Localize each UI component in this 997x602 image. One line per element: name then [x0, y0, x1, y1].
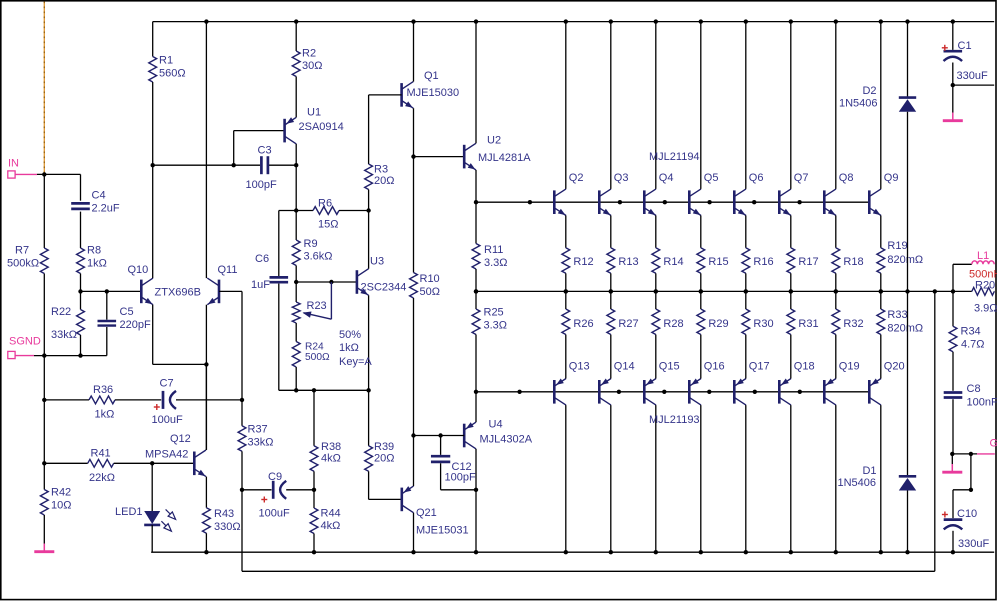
wire Q2 collector — [565, 22, 567, 189]
wire R41 row — [44, 462, 87, 464]
resistor R20 — [953, 288, 995, 296]
wire U2 emitter — [475, 170, 477, 202]
svg-text:Q18: Q18 — [794, 361, 815, 373]
svg-text:D1: D1 — [862, 465, 876, 477]
wire output mid rail — [476, 290, 953, 292]
transistor Q6 — [734, 189, 747, 218]
wire U1 collector down — [295, 165, 297, 240]
svg-text:D2: D2 — [862, 85, 876, 97]
svg-text:R25: R25 — [484, 307, 504, 319]
svg-text:20Ω: 20Ω — [374, 453, 394, 465]
node base row 1 junction 1 — [528, 200, 532, 204]
label MJL21193 — [649, 414, 700, 426]
node C1 bottom junction — [951, 83, 955, 87]
node R34 top — [933, 289, 937, 293]
svg-text:C1: C1 — [958, 40, 972, 52]
svg-text:MJL4281A: MJL4281A — [478, 152, 531, 164]
label Q3 — [614, 172, 629, 184]
svg-text:50%: 50% — [339, 329, 361, 341]
resistor R39 — [365, 390, 402, 499]
svg-text:3.3Ω: 3.3Ω — [484, 257, 508, 269]
svg-text:MJL4302A: MJL4302A — [480, 434, 533, 446]
label G — [990, 438, 997, 450]
node U1 collector row — [294, 163, 298, 167]
transistor Q16 — [689, 378, 701, 405]
label R2 — [302, 48, 322, 73]
wire Q19 emitter — [835, 335, 837, 379]
label R3 — [374, 164, 394, 188]
svg-text:330Ω: 330Ω — [214, 521, 241, 533]
wire Q11 collector — [205, 22, 207, 279]
transistor Q21 — [402, 486, 414, 513]
node Q11 collector rail — [204, 19, 208, 23]
svg-text:33kΩ: 33kΩ — [248, 437, 274, 449]
svg-text:R39: R39 — [374, 441, 394, 453]
wire G ground stub — [951, 454, 953, 464]
label R29 — [708, 318, 728, 330]
svg-text:Q7: Q7 — [794, 172, 809, 184]
svg-text:R10: R10 — [420, 273, 440, 285]
node R30 top — [744, 289, 748, 293]
svg-text:1kΩ: 1kΩ — [95, 409, 115, 421]
svg-text:R13: R13 — [618, 256, 638, 268]
wire Q9 collector — [880, 22, 882, 189]
node C7 right junction — [240, 398, 244, 402]
label R36 — [93, 384, 114, 421]
svg-text:Q13: Q13 — [569, 361, 590, 373]
wire Q3 emitter — [610, 216, 612, 248]
svg-text:R31: R31 — [798, 318, 818, 330]
svg-text:R18: R18 — [843, 256, 863, 268]
svg-text:Q21: Q21 — [416, 507, 437, 519]
svg-text:R44: R44 — [321, 508, 341, 520]
label R9 — [304, 238, 333, 263]
label MJL21194 — [649, 151, 700, 163]
node Q3 collector rail — [609, 19, 613, 23]
resistor R13 — [607, 248, 615, 292]
resistor R36 — [89, 396, 161, 404]
wire C1 branch right — [953, 84, 994, 86]
label R10 — [420, 273, 440, 298]
svg-text:R19: R19 — [887, 240, 907, 252]
label R22 — [51, 306, 77, 341]
label R44 — [321, 508, 341, 533]
wire C10 top route — [953, 454, 971, 490]
node R25 bottom — [474, 390, 478, 394]
svg-text:R7: R7 — [15, 245, 29, 257]
svg-text:R33: R33 — [887, 309, 907, 321]
node R15 bottom — [699, 289, 703, 293]
svg-text:100uF: 100uF — [259, 508, 290, 520]
wire Q11 base — [219, 291, 242, 400]
label Q21 — [416, 507, 469, 537]
resistor R43 — [203, 508, 211, 553]
label U2 — [478, 135, 531, 165]
svg-text:Q11: Q11 — [218, 264, 238, 276]
wire Q20 collector — [880, 405, 882, 552]
svg-text:Q9: Q9 — [884, 172, 899, 184]
transistor U4 — [464, 422, 476, 449]
resistor R18 — [832, 248, 840, 292]
capacitor C5 — [81, 291, 117, 355]
svg-text:3.9Ω: 3.9Ω — [974, 303, 997, 315]
label R32 — [843, 318, 863, 330]
svg-text:1kΩ: 1kΩ — [87, 258, 107, 270]
wire U4 collector — [475, 449, 477, 552]
svg-text:100pF: 100pF — [246, 179, 277, 191]
svg-text:Q2: Q2 — [569, 172, 584, 184]
label Q15 — [659, 361, 680, 373]
label Q4 — [659, 172, 674, 184]
node SGND junction — [42, 353, 46, 357]
transistor Q2 — [554, 189, 567, 218]
label Q11 — [218, 264, 238, 276]
svg-text:Q1: Q1 — [424, 70, 439, 82]
wire top bank base row — [476, 201, 869, 203]
label U4 — [480, 419, 533, 446]
capacitor C8 — [944, 393, 963, 454]
svg-text:U3: U3 — [370, 256, 384, 268]
svg-text:MJE15031: MJE15031 — [416, 525, 469, 537]
node Q19 collector rail — [834, 550, 838, 554]
label Q12 — [145, 433, 191, 461]
node base row 2 junction 5 — [753, 390, 757, 394]
node C10 bottom — [951, 550, 955, 554]
node R41 left — [42, 461, 46, 465]
node Q8 collector rail — [834, 19, 838, 23]
port SGND — [8, 351, 34, 358]
resistor R26 — [562, 291, 570, 334]
label Q2 — [569, 172, 584, 184]
wire U4 emitter — [475, 392, 477, 422]
wire Q17 collector — [745, 405, 747, 552]
transistor Q8 — [824, 189, 837, 218]
svg-text:R14: R14 — [663, 256, 683, 268]
resistor R7 — [40, 248, 48, 274]
potentiometer R23 — [292, 282, 300, 342]
resistor R38 — [310, 390, 318, 490]
node C12 top — [438, 433, 442, 437]
wire tail down — [205, 364, 207, 450]
pot R23 wiper — [302, 280, 334, 319]
svg-text:3.3Ω: 3.3Ω — [484, 320, 508, 332]
transistor Q9 — [869, 189, 882, 218]
label R27 — [618, 318, 638, 330]
label Q14 — [614, 361, 635, 373]
svg-text:Q19: Q19 — [839, 361, 860, 373]
svg-text:R3: R3 — [374, 164, 388, 176]
node base row 2 junction 2 — [617, 390, 621, 394]
node Q20 collector rail — [879, 550, 883, 554]
label R15 — [708, 256, 728, 268]
label R43 — [214, 508, 241, 533]
label U3 — [361, 256, 407, 294]
svg-text:2SC2344: 2SC2344 — [361, 282, 407, 294]
svg-text:R20: R20 — [975, 280, 995, 292]
wire IN to C4 — [37, 173, 81, 175]
node D1 rail — [905, 550, 909, 554]
node Q6 collector rail — [744, 19, 748, 23]
label Q8 — [839, 172, 854, 184]
svg-text:R23: R23 — [307, 300, 327, 312]
svg-text:Q10: Q10 — [128, 264, 149, 276]
wire Q1 emitter — [413, 108, 415, 156]
label R26 — [573, 318, 593, 330]
svg-text:R22: R22 — [51, 306, 71, 318]
node R24 bottom — [294, 388, 298, 392]
svg-text:R29: R29 — [708, 318, 728, 330]
svg-text:22kΩ: 22kΩ — [89, 472, 115, 484]
node Q4 collector rail — [654, 19, 658, 23]
wire U3 collector — [368, 211, 370, 269]
node Q1 emitter junction — [411, 154, 415, 158]
svg-text:MPSA42: MPSA42 — [145, 449, 188, 461]
transistor Q3 — [599, 189, 612, 218]
label R28 — [663, 318, 683, 330]
resistor R27 — [607, 291, 615, 334]
svg-text:560Ω: 560Ω — [159, 68, 186, 80]
label Q18 — [794, 361, 815, 373]
node R28 top — [654, 289, 658, 293]
wire Q18 emitter — [790, 335, 792, 379]
transistor Q7 — [779, 189, 792, 218]
node R27 top — [609, 289, 613, 293]
capacitor C7 — [163, 391, 242, 409]
transistor Q1 — [402, 82, 415, 111]
wire Q5 collector — [700, 22, 702, 189]
label Q20 — [884, 361, 905, 373]
port IN — [8, 171, 37, 178]
svg-text:G: G — [990, 438, 997, 450]
label D1 — [837, 465, 876, 489]
wire Q11 emitter — [205, 305, 207, 365]
resistor R41 — [88, 459, 153, 467]
svg-text:R30: R30 — [753, 318, 773, 330]
node Q1 collector rail — [411, 19, 415, 23]
node R22 bottom — [78, 353, 82, 357]
label R34 — [961, 326, 985, 351]
node R11 bottom — [474, 289, 478, 293]
label C1 — [942, 40, 988, 82]
node R31 top — [789, 289, 793, 293]
ground input — [34, 544, 54, 552]
svg-text:1uF: 1uF — [251, 279, 270, 291]
wire Q20 emitter — [880, 335, 882, 379]
resistor R34 — [949, 291, 957, 390]
wire U3 emitter — [368, 295, 370, 390]
label C12 — [445, 461, 476, 484]
wire Q14 emitter — [610, 335, 612, 379]
node U4 collector rail — [474, 550, 478, 554]
svg-text:R37: R37 — [248, 424, 268, 436]
svg-text:C8: C8 — [967, 383, 981, 395]
svg-text:MJL21194: MJL21194 — [649, 151, 700, 163]
ground C1 — [943, 113, 963, 121]
svg-text:Q15: Q15 — [659, 361, 680, 373]
wire 390 row — [279, 389, 369, 391]
label R31 — [798, 318, 818, 330]
label R33 — [887, 309, 923, 335]
node base row 1 junction 5 — [752, 200, 756, 204]
label R42 — [51, 487, 71, 512]
label L1 — [969, 250, 997, 281]
svg-text:R36: R36 — [93, 384, 113, 396]
node U4 base row left — [411, 433, 415, 437]
label Q7 — [794, 172, 809, 184]
resistor R16 — [742, 248, 750, 292]
svg-text:Q6: Q6 — [749, 172, 764, 184]
label R17 — [798, 256, 818, 268]
wire Q4 emitter — [655, 216, 657, 248]
svg-text:R16: R16 — [753, 256, 773, 268]
label C3 — [246, 145, 277, 192]
label Q9 — [884, 172, 899, 184]
node C9 right junction — [312, 488, 316, 492]
label D2 — [839, 85, 878, 110]
node IN junction — [42, 172, 46, 176]
svg-text:R27: R27 — [618, 318, 638, 330]
node R14 bottom — [654, 289, 658, 293]
capacitor C1 — [944, 22, 963, 86]
svg-text:Key=A: Key=A — [339, 356, 372, 368]
capacitor C12 — [431, 436, 476, 490]
wire SGND to R22 — [34, 355, 81, 357]
node base row 1 junction 3 — [663, 200, 667, 204]
resistor R19 — [877, 248, 885, 292]
wire bottom bank base row — [476, 391, 869, 393]
wire Q7 collector — [790, 22, 792, 189]
svg-text:220pF: 220pF — [120, 319, 151, 331]
resistor R10 — [410, 157, 418, 436]
wire feedback column left — [241, 490, 243, 572]
wire feedback column right — [934, 291, 936, 571]
svg-text:R38: R38 — [321, 441, 341, 453]
svg-text:C6: C6 — [255, 253, 269, 265]
label R19 — [887, 240, 923, 266]
resistor R29 — [697, 291, 705, 334]
node C7 row left — [42, 398, 46, 402]
label LED1 — [115, 506, 143, 518]
svg-text:C5: C5 — [120, 306, 134, 318]
resistor R15 — [697, 248, 705, 292]
svg-text:R42: R42 — [51, 487, 71, 499]
node R26 top — [564, 289, 568, 293]
svg-text:Q8: Q8 — [839, 172, 854, 184]
label R23 params — [339, 329, 372, 368]
node R16 bottom — [744, 289, 748, 293]
svg-text:R15: R15 — [708, 256, 728, 268]
transistor U3 — [357, 269, 370, 298]
svg-text:R6: R6 — [318, 198, 332, 210]
wire U1 collector — [295, 144, 297, 165]
node Q9 collector rail — [879, 19, 883, 23]
node R18 bottom — [834, 289, 838, 293]
svg-text:820mΩ: 820mΩ — [887, 254, 923, 266]
node D2 rail — [905, 19, 909, 23]
label Q5 — [704, 172, 719, 184]
transistor Q11 — [206, 278, 219, 307]
node R9 bottom — [294, 280, 298, 284]
wire Q21 collector — [413, 513, 415, 553]
svg-text:10Ω: 10Ω — [51, 500, 71, 512]
transistor Q4 — [644, 189, 657, 218]
label R24 — [305, 342, 330, 363]
svg-text:R1: R1 — [159, 55, 173, 67]
node R38 top — [312, 388, 316, 392]
wire Q10 base row — [81, 290, 142, 292]
transistor Q18 — [779, 378, 791, 405]
node C9 left junction — [240, 488, 244, 492]
wire Q15 emitter — [655, 335, 657, 379]
transistor Q13 — [554, 378, 566, 405]
label C8 — [967, 383, 997, 409]
transistor Q17 — [734, 378, 746, 405]
svg-text:L1: L1 — [977, 250, 989, 262]
resistor R24 — [292, 342, 300, 391]
capacitor C10 — [944, 490, 963, 552]
capacitor C3 — [261, 156, 268, 174]
svg-text:C4: C4 — [92, 190, 106, 202]
wire Q6 emitter — [745, 216, 747, 248]
label R8 — [87, 245, 107, 270]
svg-text:Q14: Q14 — [614, 361, 635, 373]
transistor Q12 — [194, 450, 207, 479]
wire Q7 emitter — [790, 216, 792, 248]
wire C1 to ground — [952, 85, 954, 112]
node base row 2 junction 4 — [707, 390, 711, 394]
svg-text:Q20: Q20 — [884, 361, 905, 373]
svg-text:2SA0914: 2SA0914 — [299, 121, 344, 133]
wire feedback return bottom — [242, 570, 935, 572]
svg-text:SGND: SGND — [9, 336, 41, 348]
svg-text:1kΩ: 1kΩ — [339, 342, 359, 354]
transistor U1 — [285, 117, 297, 144]
svg-text:R26: R26 — [573, 318, 593, 330]
resistor R28 — [652, 291, 660, 334]
wire Q12 emitter — [205, 477, 207, 508]
diode D1 — [899, 291, 916, 552]
wire Q6 collector — [745, 22, 747, 189]
node Q16 collector rail — [699, 550, 703, 554]
node R29 top — [699, 289, 703, 293]
svg-text:100uF: 100uF — [152, 414, 183, 426]
wire Q1 collector — [413, 22, 415, 82]
wire C3 row — [153, 164, 297, 166]
svg-text:Q17: Q17 — [749, 361, 770, 373]
svg-text:30Ω: 30Ω — [302, 60, 322, 72]
svg-text:Q12: Q12 — [170, 433, 191, 445]
svg-text:ZTX696B: ZTX696B — [155, 287, 201, 299]
wire U1 base elbow — [234, 131, 285, 166]
wire Q16 emitter — [700, 335, 702, 379]
label ZTX696B — [155, 287, 201, 299]
node R25 mid rail — [474, 289, 478, 293]
svg-text:U4: U4 — [489, 419, 503, 431]
wire Q13 collector — [565, 405, 567, 552]
node C3 row left — [151, 163, 155, 167]
svg-text:U2: U2 — [487, 135, 501, 147]
label Q10 — [128, 264, 149, 276]
node U2 collector rail — [474, 19, 478, 23]
svg-text:MJE15030: MJE15030 — [407, 87, 460, 99]
transistor U2 — [464, 143, 477, 172]
label R18 — [843, 256, 863, 268]
node LED top junction — [150, 461, 154, 465]
wire Q3 collector — [610, 22, 612, 189]
svg-text:R43: R43 — [214, 508, 234, 520]
resistor R8 — [77, 248, 85, 291]
label R1 — [159, 55, 186, 80]
